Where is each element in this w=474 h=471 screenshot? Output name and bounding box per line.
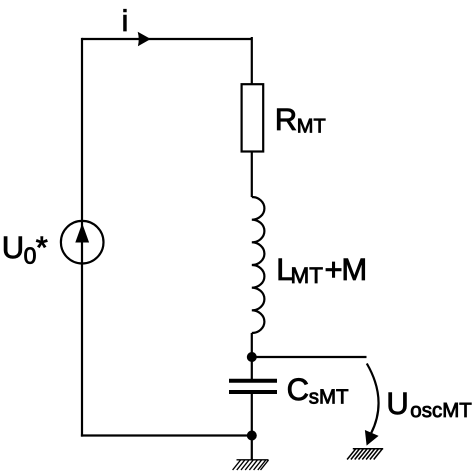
- svg-text:+: +: [325, 252, 343, 287]
- svg-text:MT: MT: [291, 263, 324, 288]
- svg-text:M: M: [341, 252, 367, 287]
- svg-text:sMT: sMT: [309, 386, 349, 409]
- svg-text:R: R: [275, 102, 297, 137]
- svg-text:i: i: [122, 5, 129, 38]
- svg-text:*: *: [36, 230, 48, 265]
- svg-text:U: U: [386, 386, 408, 421]
- svg-text:MT: MT: [297, 116, 326, 138]
- svg-text:0: 0: [24, 243, 37, 269]
- svg-text:C: C: [287, 372, 309, 407]
- svg-text:oscMT: oscMT: [410, 399, 472, 422]
- svg-text:U: U: [2, 230, 24, 265]
